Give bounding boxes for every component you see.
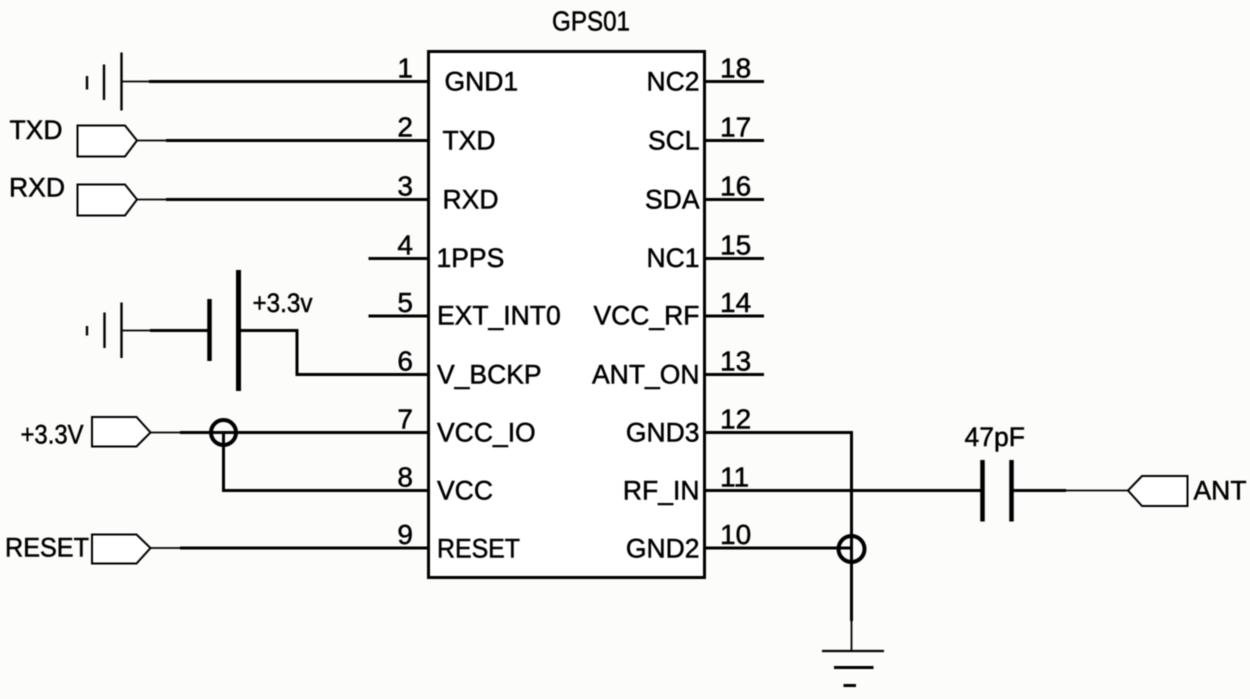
svg-text:VCC_RF: VCC_RF bbox=[593, 301, 699, 331]
svg-text:47pF: 47pF bbox=[965, 422, 1025, 452]
svg-text:18: 18 bbox=[720, 53, 751, 84]
svg-text:RXD: RXD bbox=[9, 173, 65, 203]
svg-text:NC2: NC2 bbox=[646, 67, 699, 97]
svg-text:RESET: RESET bbox=[5, 533, 89, 563]
svg-text:3: 3 bbox=[397, 171, 413, 202]
svg-text:2: 2 bbox=[397, 112, 413, 143]
svg-text:TXD: TXD bbox=[10, 115, 63, 145]
svg-text:5: 5 bbox=[397, 287, 413, 318]
svg-text:1PPS: 1PPS bbox=[437, 243, 505, 273]
svg-text:GPS01: GPS01 bbox=[552, 6, 630, 37]
svg-text:13: 13 bbox=[720, 346, 751, 377]
svg-text:EXT_INT0: EXT_INT0 bbox=[437, 301, 561, 331]
svg-text:10: 10 bbox=[720, 519, 751, 550]
svg-text:12: 12 bbox=[720, 404, 751, 435]
svg-text:GND3: GND3 bbox=[626, 418, 700, 448]
svg-text:SCL: SCL bbox=[648, 126, 700, 156]
svg-text:VCC: VCC bbox=[437, 476, 493, 506]
svg-text:8: 8 bbox=[397, 462, 413, 493]
svg-text:+3.3v: +3.3v bbox=[253, 288, 314, 318]
svg-text:16: 16 bbox=[720, 171, 751, 202]
svg-text:17: 17 bbox=[720, 112, 751, 143]
svg-text:1: 1 bbox=[397, 53, 413, 84]
svg-text:NC1: NC1 bbox=[646, 243, 699, 273]
svg-text:6: 6 bbox=[397, 346, 413, 377]
svg-text:GND2: GND2 bbox=[626, 534, 700, 564]
svg-text:VCC_IO: VCC_IO bbox=[437, 418, 536, 448]
svg-text:11: 11 bbox=[720, 462, 749, 493]
svg-text:7: 7 bbox=[397, 404, 413, 435]
svg-text:15: 15 bbox=[720, 230, 751, 261]
svg-text:ANT_ON: ANT_ON bbox=[592, 360, 700, 390]
svg-text:SDA: SDA bbox=[645, 185, 700, 215]
svg-text:TXD: TXD bbox=[443, 126, 496, 156]
svg-text:RF_IN: RF_IN bbox=[623, 476, 700, 506]
svg-text:14: 14 bbox=[720, 287, 751, 318]
svg-text:GND1: GND1 bbox=[445, 67, 519, 97]
svg-text:4: 4 bbox=[397, 230, 413, 261]
svg-text:V_BCKP: V_BCKP bbox=[437, 360, 542, 390]
svg-text:9: 9 bbox=[397, 519, 413, 550]
svg-text:RXD: RXD bbox=[443, 185, 499, 215]
svg-text:ANT: ANT bbox=[1194, 476, 1247, 506]
svg-text:+3.3V: +3.3V bbox=[21, 420, 84, 450]
svg-text:RESET: RESET bbox=[437, 534, 520, 564]
